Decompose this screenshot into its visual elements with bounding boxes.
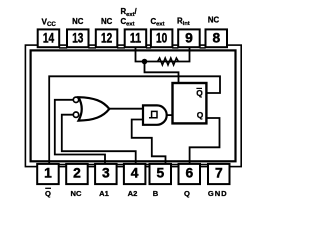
svg-text:8: 8 bbox=[212, 30, 220, 45]
svg-text:NC: NC bbox=[72, 17, 84, 26]
svg-text:13: 13 bbox=[72, 30, 83, 45]
svg-text:3: 3 bbox=[102, 166, 110, 181]
svg-text:1: 1 bbox=[44, 166, 52, 181]
svg-text:NC: NC bbox=[208, 15, 220, 24]
svg-text:NC: NC bbox=[71, 189, 82, 198]
svg-text:NC: NC bbox=[101, 17, 113, 26]
svg-text:Q: Q bbox=[197, 110, 204, 120]
svg-text:7: 7 bbox=[215, 166, 223, 181]
svg-text:GND: GND bbox=[208, 189, 228, 198]
svg-text:B: B bbox=[153, 189, 159, 198]
svg-text:14: 14 bbox=[43, 30, 54, 45]
svg-text:9: 9 bbox=[185, 30, 193, 45]
svg-text:Q: Q bbox=[45, 189, 51, 198]
svg-text:10: 10 bbox=[156, 30, 167, 45]
svg-text:4: 4 bbox=[131, 166, 139, 181]
svg-text:11: 11 bbox=[130, 30, 141, 45]
svg-text:12: 12 bbox=[101, 30, 112, 45]
svg-text:Q: Q bbox=[184, 189, 190, 198]
svg-text:2: 2 bbox=[73, 166, 81, 181]
svg-text:6: 6 bbox=[185, 166, 193, 181]
svg-text:5: 5 bbox=[156, 166, 164, 181]
svg-text:Q: Q bbox=[196, 88, 203, 98]
svg-text:A2: A2 bbox=[128, 189, 138, 198]
svg-text:A1: A1 bbox=[99, 189, 109, 198]
